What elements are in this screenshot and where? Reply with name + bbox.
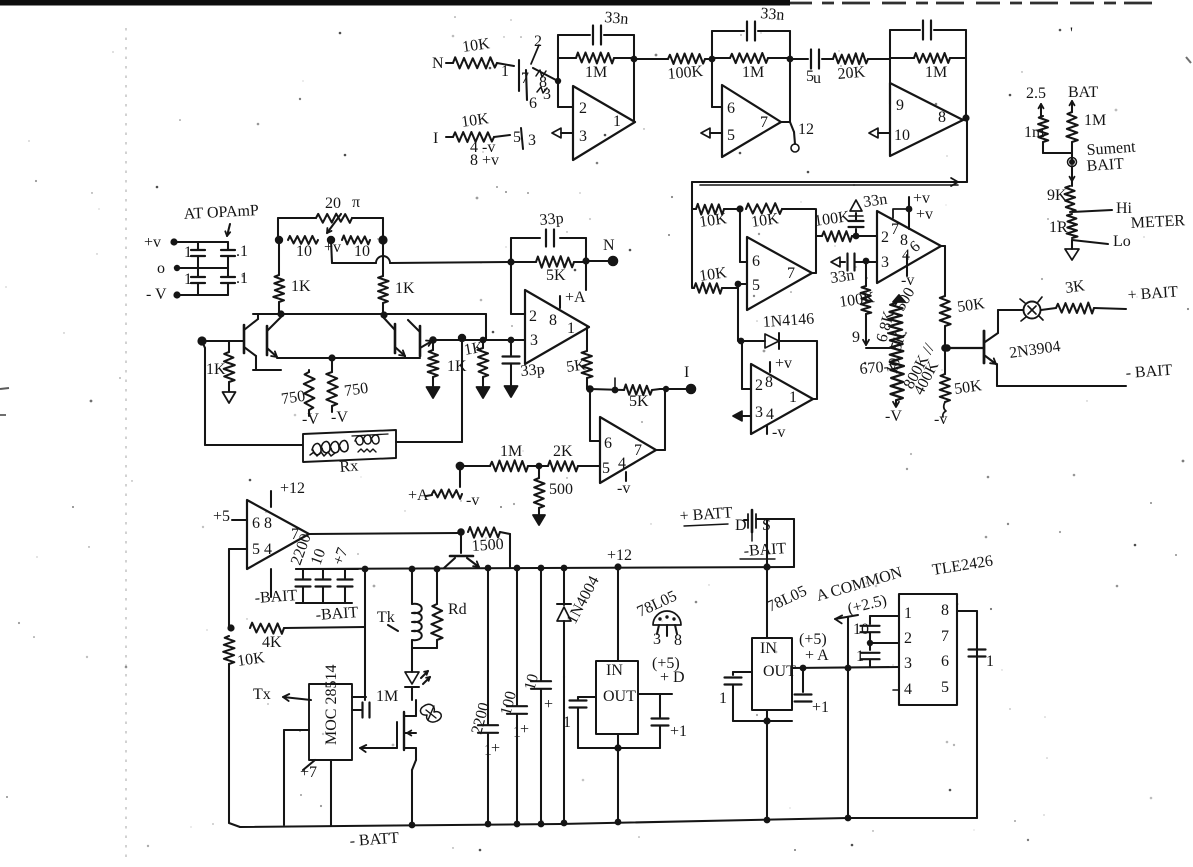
svg-text:+1: +1 (670, 723, 687, 740)
svg-text:1M: 1M (925, 64, 947, 81)
svg-text:+v: +v (913, 190, 930, 207)
svg-text:3: 3 (653, 631, 661, 648)
svg-text:1M: 1M (742, 64, 764, 81)
svg-text:Rx: Rx (339, 457, 359, 476)
svg-text:10: 10 (296, 243, 312, 260)
svg-text:N: N (432, 55, 444, 72)
svg-text:6: 6 (941, 653, 949, 670)
svg-text:-BAIT: -BAIT (743, 540, 787, 560)
svg-text:6: 6 (727, 100, 735, 117)
svg-text:+ BAIT: + BAIT (1127, 284, 1179, 304)
svg-text:1: 1 (484, 742, 492, 759)
svg-text:1: 1 (904, 605, 912, 622)
svg-text:7: 7 (760, 114, 768, 131)
svg-text:1: 1 (501, 63, 509, 80)
svg-text:5K: 5K (546, 267, 566, 284)
svg-text:100K: 100K (667, 63, 704, 83)
svg-text:1: 1 (513, 724, 521, 741)
svg-text:9: 9 (852, 329, 860, 346)
svg-text:5: 5 (941, 679, 949, 696)
svg-text:10: 10 (894, 127, 910, 144)
svg-text:Lo: Lo (1113, 233, 1131, 250)
svg-text:N: N (603, 237, 615, 254)
svg-text:1K: 1K (447, 358, 467, 375)
svg-text:5: 5 (513, 129, 521, 146)
svg-text:.1: .1 (236, 270, 248, 287)
svg-text:3: 3 (881, 254, 889, 271)
svg-text:5K: 5K (565, 356, 587, 376)
svg-text:(+5): (+5) (799, 631, 827, 648)
svg-text:METER: METER (1130, 212, 1185, 232)
svg-text:I: I (433, 130, 438, 147)
svg-text:7: 7 (941, 628, 949, 645)
svg-text:8: 8 (938, 109, 946, 126)
svg-text:+: + (491, 740, 500, 757)
svg-text:4: 4 (904, 681, 912, 698)
svg-text:8: 8 (549, 312, 557, 329)
svg-text:7: 7 (891, 221, 899, 238)
svg-text:+: + (520, 721, 529, 738)
svg-text:BAIT: BAIT (1086, 155, 1125, 175)
svg-text:2.5: 2.5 (1026, 85, 1046, 102)
svg-text:π: π (352, 194, 360, 211)
svg-text:-BAIT: -BAIT (254, 587, 298, 607)
svg-text:33n: 33n (604, 9, 629, 28)
svg-text:1K: 1K (395, 280, 415, 297)
svg-text:+5: +5 (213, 508, 230, 525)
svg-text:20: 20 (325, 195, 341, 212)
svg-text:+v: +v (144, 234, 161, 251)
svg-text:1N4146: 1N4146 (762, 310, 815, 331)
svg-text:+12: +12 (280, 480, 305, 497)
svg-text:1M: 1M (500, 443, 522, 460)
svg-text:-V: -V (885, 408, 902, 425)
svg-text:2: 2 (579, 100, 587, 117)
svg-text:5K: 5K (629, 393, 649, 410)
svg-text:10: 10 (853, 621, 869, 638)
svg-text:1K: 1K (463, 339, 486, 359)
svg-text:4: 4 (766, 406, 774, 423)
svg-text:2: 2 (534, 33, 542, 50)
svg-text:Tx: Tx (253, 686, 271, 703)
svg-text:33p: 33p (520, 361, 545, 380)
svg-text:33n: 33n (862, 191, 888, 211)
svg-text:8: 8 (264, 515, 272, 532)
svg-text:4: 4 (618, 455, 626, 472)
svg-text:1M: 1M (1084, 112, 1106, 129)
svg-text:5: 5 (727, 127, 735, 144)
svg-text:1: 1 (986, 653, 994, 670)
svg-text:MOC 28514: MOC 28514 (323, 665, 340, 745)
svg-text:3: 3 (543, 86, 551, 103)
svg-text:-v: -v (617, 480, 630, 497)
svg-text:+v: +v (775, 355, 792, 372)
svg-text:2: 2 (904, 630, 912, 647)
svg-text:12: 12 (798, 121, 814, 138)
svg-text:BAT: BAT (1068, 84, 1098, 101)
svg-text:33n: 33n (760, 5, 785, 24)
svg-text:7: 7 (787, 265, 795, 282)
svg-text:8: 8 (941, 602, 949, 619)
svg-text:3: 3 (530, 332, 538, 349)
svg-text:7: 7 (634, 442, 642, 459)
svg-text:500: 500 (549, 481, 573, 498)
svg-text:-v: -v (934, 411, 947, 428)
svg-text:1: 1 (613, 113, 621, 130)
svg-text:2: 2 (881, 229, 889, 246)
svg-text:33p: 33p (539, 210, 564, 229)
svg-text:IN: IN (760, 640, 777, 657)
svg-text:6: 6 (529, 95, 537, 112)
svg-text:+: + (544, 696, 553, 713)
svg-text:6: 6 (252, 515, 260, 532)
svg-text:4K: 4K (262, 634, 282, 651)
svg-text:+ D: + D (660, 669, 685, 686)
svg-text:10: 10 (354, 243, 370, 260)
svg-text:5: 5 (752, 277, 760, 294)
svg-text:- BAIT: - BAIT (1125, 362, 1173, 382)
svg-text:1: 1 (856, 648, 864, 665)
svg-text:1: 1 (184, 271, 192, 288)
svg-text:1R: 1R (1049, 219, 1068, 236)
svg-text:8: 8 (674, 632, 682, 649)
svg-text:- BATT: - BATT (349, 830, 400, 850)
svg-text:1: 1 (789, 389, 797, 406)
svg-text:+A: +A (565, 289, 586, 306)
svg-text:2K: 2K (553, 443, 573, 460)
svg-text:-V: -V (302, 411, 319, 428)
svg-text:20K: 20K (837, 64, 866, 83)
svg-text:9: 9 (896, 97, 904, 114)
svg-text:.1: .1 (236, 243, 248, 260)
svg-text:-v: -v (466, 492, 479, 509)
svg-text:3: 3 (528, 132, 536, 149)
svg-text:Rd: Rd (448, 601, 467, 618)
svg-text:750: 750 (280, 388, 306, 408)
svg-text:u: u (813, 70, 821, 87)
svg-text:670-v: 670-v (859, 358, 898, 378)
svg-text:IN: IN (606, 662, 623, 679)
svg-text:5: 5 (252, 541, 260, 558)
svg-text:2: 2 (755, 377, 763, 394)
svg-text:6: 6 (752, 253, 760, 270)
svg-text:33n: 33n (829, 267, 855, 287)
svg-text:1K: 1K (206, 361, 226, 378)
svg-text:2: 2 (529, 308, 537, 325)
svg-text:8 +v: 8 +v (470, 152, 499, 169)
svg-text:Tk: Tk (377, 609, 395, 626)
svg-text:3: 3 (579, 128, 587, 145)
svg-text:o: o (157, 260, 165, 277)
svg-text:8: 8 (765, 374, 773, 391)
svg-text:1M: 1M (585, 64, 607, 81)
svg-text:1K: 1K (291, 278, 311, 295)
svg-text:1: 1 (567, 320, 575, 337)
svg-text:-v: -v (772, 424, 785, 441)
svg-text:3: 3 (755, 404, 763, 421)
svg-text:1: 1 (184, 244, 192, 261)
svg-text:OUT: OUT (763, 663, 796, 680)
svg-text:- V: - V (146, 286, 167, 303)
svg-text:1M: 1M (376, 688, 398, 705)
svg-text:+ A: + A (805, 647, 829, 664)
svg-text:+7: +7 (300, 764, 317, 781)
svg-text:750: 750 (343, 380, 369, 400)
svg-text:5: 5 (602, 460, 610, 477)
svg-text:3K: 3K (1064, 277, 1086, 297)
svg-text:7: 7 (521, 70, 529, 87)
svg-text:': ' (1070, 25, 1073, 42)
svg-text:4: 4 (264, 541, 272, 558)
svg-text:1m: 1m (1024, 124, 1045, 141)
svg-text:-BAIT: -BAIT (315, 604, 359, 624)
svg-text:1: 1 (719, 690, 727, 707)
svg-text:+1: +1 (812, 699, 829, 716)
svg-text:9K: 9K (1047, 187, 1067, 204)
svg-text:3: 3 (904, 655, 912, 672)
svg-text:OUT: OUT (603, 688, 636, 705)
svg-text:1: 1 (563, 714, 571, 731)
svg-text:-V: -V (331, 409, 348, 426)
svg-text:I: I (684, 364, 689, 381)
svg-text:+12: +12 (607, 547, 632, 564)
svg-text:1500: 1500 (471, 536, 504, 555)
svg-text:6: 6 (604, 435, 612, 452)
svg-text:+v: +v (916, 206, 933, 223)
